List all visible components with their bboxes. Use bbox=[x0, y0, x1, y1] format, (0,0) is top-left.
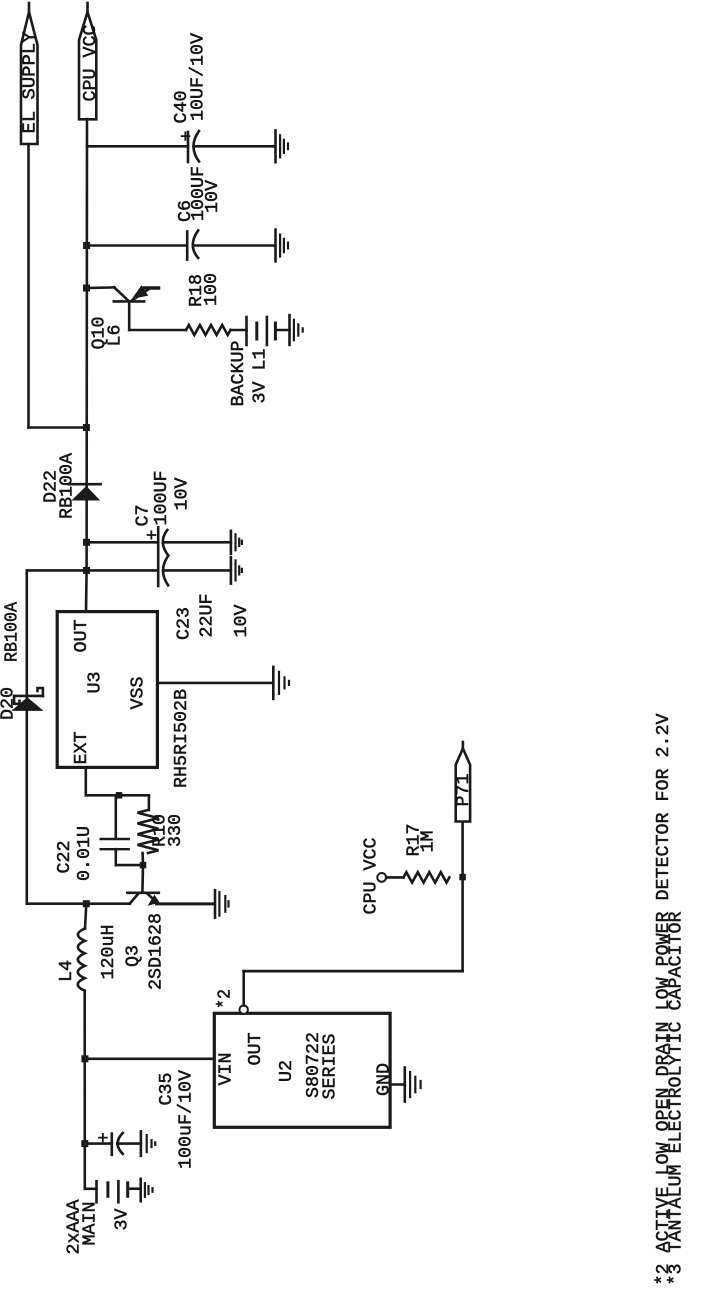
wire GND to ground bbox=[390, 1083, 405, 1086]
shared plate C7/C23 bbox=[157, 527, 160, 586]
svg-text:10V: 10V bbox=[232, 604, 252, 637]
IC U2 S80722 bbox=[214, 1013, 390, 1127]
svg-text:330: 330 bbox=[166, 814, 186, 847]
node R17/P71 bbox=[459, 874, 466, 881]
battery BACKUP 3V L1 bbox=[245, 317, 248, 345]
svg-text:+: + bbox=[177, 131, 197, 142]
svg-text:MAIN: MAIN bbox=[81, 1202, 101, 1246]
power flag CPU VCC bbox=[79, 12, 96, 119]
node C35 junction bbox=[81, 1140, 88, 1147]
svg-text:C35: C35 bbox=[157, 1073, 177, 1106]
svg-text:C22: C22 bbox=[55, 841, 75, 874]
node EL/rail junction bbox=[83, 424, 90, 431]
diode D22 RB100A bbox=[69, 483, 101, 486]
resistor R10 bbox=[148, 795, 151, 810]
wire rail lower (junction to L4) bbox=[85, 904, 86, 929]
svg-text:OUT: OUT bbox=[72, 619, 92, 652]
svg-text:Q3: Q3 bbox=[123, 945, 143, 967]
battery MAIN 2xAAA bbox=[85, 1188, 97, 1191]
power flag EL SUPPLY bbox=[21, 12, 38, 144]
ground C23 bbox=[230, 557, 233, 583]
resistor R18 bbox=[186, 325, 231, 335]
wire EL SUPPLY stem bbox=[27, 144, 30, 428]
wire node-904 horizontal bbox=[27, 902, 130, 905]
svg-text:0.01U: 0.01U bbox=[75, 826, 95, 881]
svg-text:VIN: VIN bbox=[217, 1053, 237, 1086]
node R10/C22 bottom bbox=[140, 862, 147, 869]
svg-text:L4: L4 bbox=[57, 960, 77, 982]
transistor Q10 bbox=[83, 285, 90, 292]
node C7 junction bbox=[83, 539, 90, 546]
svg-text:D20: D20 bbox=[0, 687, 19, 720]
ground U2 GND bbox=[403, 1068, 406, 1102]
svg-text:GND: GND bbox=[375, 1063, 395, 1096]
ground Q3 bbox=[214, 890, 217, 917]
svg-text:22UF: 22UF bbox=[198, 594, 218, 638]
svg-text:120uH: 120uH bbox=[99, 925, 119, 980]
ground VSS bbox=[272, 667, 275, 699]
svg-text:P71: P71 bbox=[454, 774, 474, 807]
wire VIN bbox=[85, 1058, 214, 1061]
wire EXT bbox=[85, 767, 88, 795]
svg-text:U2: U2 bbox=[277, 1060, 297, 1082]
connector flag P71 bbox=[456, 749, 470, 822]
svg-text:VSS: VSS bbox=[129, 677, 149, 710]
ground MAIN bbox=[139, 1179, 142, 1201]
svg-text:C23: C23 bbox=[175, 607, 195, 640]
svg-text:L6: L6 bbox=[106, 325, 126, 347]
svg-text:3V: 3V bbox=[113, 1208, 133, 1230]
wire EL SUPPLY to rail bbox=[29, 426, 87, 429]
svg-text:10V: 10V bbox=[173, 477, 193, 510]
diode D20 RB100A bbox=[14, 695, 43, 698]
svg-text:CPU VCC: CPU VCC bbox=[362, 837, 382, 914]
svg-text:C7: C7 bbox=[134, 505, 154, 527]
svg-text:*2: *2 bbox=[216, 989, 236, 1009]
svg-text:EL SUPPLY: EL SUPPLY bbox=[21, 31, 41, 133]
inductor L4 bbox=[78, 928, 85, 990]
svg-text:U3: U3 bbox=[86, 672, 106, 694]
svg-text:*3 TANTALUM ELECTROLYTIC CAPAC: *3 TANTALUM ELECTROLYTIC CAPACITOR bbox=[667, 911, 687, 1285]
capacitor C35 bbox=[85, 1142, 112, 1145]
IC U3 RH5RI502B bbox=[57, 612, 157, 768]
wire D20 branch vertical bbox=[25, 570, 28, 903]
ground BACKUP bbox=[288, 315, 291, 345]
wire CPU VCC rail (upper) bbox=[86, 119, 87, 612]
node VIN junction bbox=[81, 1055, 88, 1062]
svg-text:RB100A: RB100A bbox=[58, 453, 78, 519]
capacitor C40 bbox=[87, 145, 188, 148]
svg-text:2SD1628: 2SD1628 bbox=[146, 913, 166, 990]
svg-text:BACKUP: BACKUP bbox=[229, 341, 249, 407]
ground C40 bbox=[274, 130, 277, 162]
svg-text:10UF/10V: 10UF/10V bbox=[189, 33, 209, 121]
transistor Q3 2SD1628 bbox=[141, 865, 144, 893]
terminal CPU VCC circle bbox=[377, 873, 386, 882]
wire VSS to ground bbox=[157, 682, 273, 685]
svg-text:SERIES: SERIES bbox=[321, 1034, 341, 1100]
capacitor C22 bbox=[116, 794, 119, 797]
capacitor C7 bbox=[87, 541, 158, 544]
wire Q3 emitter to ground bbox=[157, 902, 215, 905]
svg-text:RB100A: RB100A bbox=[3, 602, 23, 662]
svg-text:RH5RI502B: RH5RI502B bbox=[172, 689, 192, 788]
capacitor C6 bbox=[83, 242, 90, 249]
svg-text:EXT: EXT bbox=[72, 731, 92, 764]
resistor R17 bbox=[386, 876, 403, 879]
svg-text:+: + bbox=[95, 1132, 115, 1143]
svg-text:3V L1: 3V L1 bbox=[251, 349, 271, 404]
svg-text:10V: 10V bbox=[203, 180, 223, 213]
ground C35 bbox=[140, 1131, 143, 1155]
node C23 junction bbox=[83, 567, 90, 574]
svg-text:100uF/10V: 100uF/10V bbox=[177, 1070, 197, 1169]
pin OUT circle U2 bbox=[240, 1006, 248, 1014]
wire Q10 base to R18 bbox=[128, 301, 131, 330]
svg-text:+: + bbox=[143, 530, 163, 541]
svg-text:CPU VCC: CPU VCC bbox=[81, 24, 101, 101]
svg-text:1M: 1M bbox=[419, 831, 439, 853]
ground C6 bbox=[274, 230, 277, 262]
wire rail below L4 to battery bbox=[83, 991, 86, 1189]
capacitor C23 bbox=[27, 569, 158, 572]
ground C7 bbox=[230, 531, 233, 554]
node R10/C22 top bbox=[116, 792, 123, 799]
svg-text:OUT: OUT bbox=[246, 1032, 266, 1065]
svg-text:100: 100 bbox=[202, 273, 222, 306]
svg-text:100UF: 100UF bbox=[152, 471, 172, 526]
wire U2 OUT to P71 bbox=[242, 971, 245, 1005]
